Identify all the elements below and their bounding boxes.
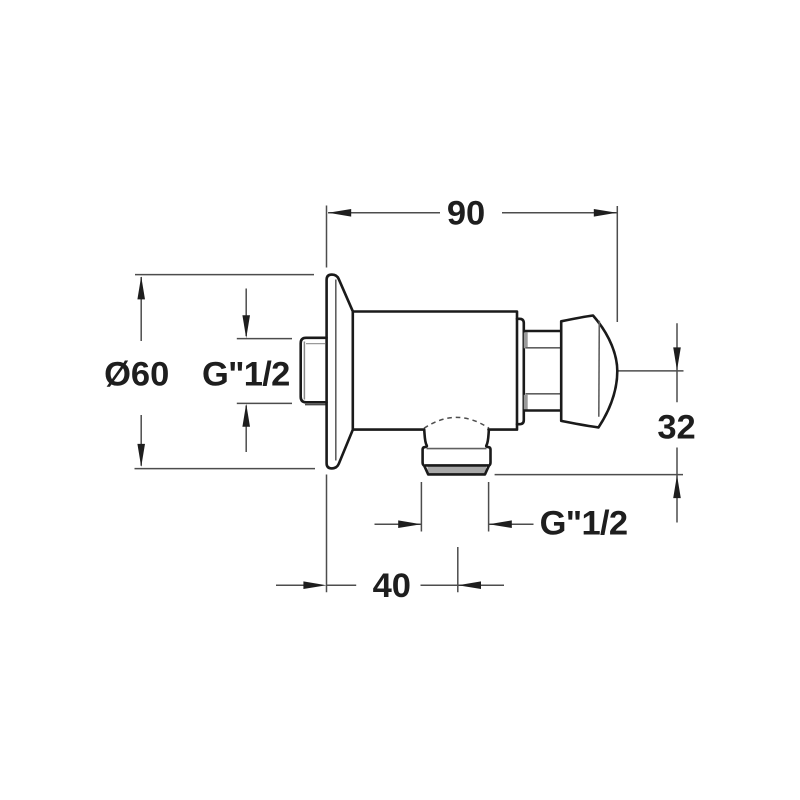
svg-text:40: 40 (373, 567, 411, 605)
svg-text:Ø60: Ø60 (104, 355, 169, 393)
svg-text:90: 90 (447, 195, 485, 233)
svg-text:G"1/2: G"1/2 (540, 505, 628, 543)
svg-text:32: 32 (657, 408, 695, 446)
svg-text:G"1/2: G"1/2 (202, 355, 290, 393)
